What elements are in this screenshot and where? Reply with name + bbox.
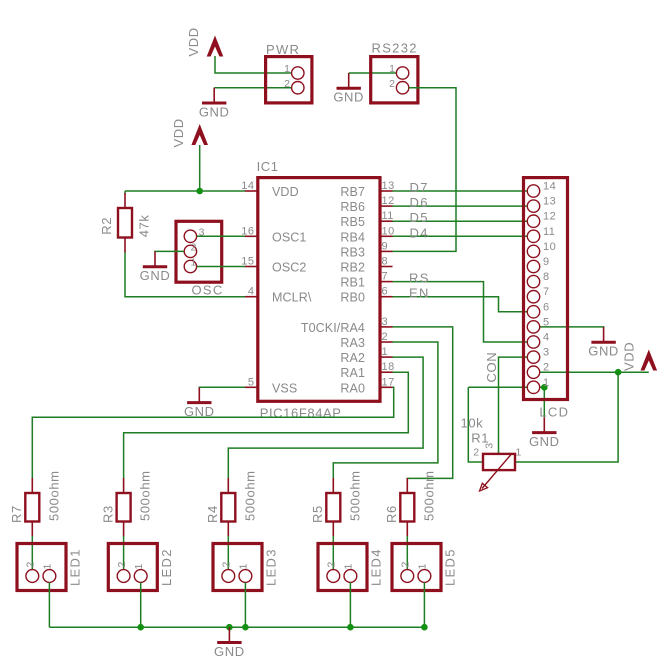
ground GND (left of OSC): [140, 251, 171, 283]
svg-text:12: 12: [543, 211, 556, 223]
power symbol VDD (above IC): [171, 118, 208, 147]
wire LCD pin 1 to GND: [543, 387, 545, 417]
svg-text:9: 9: [382, 240, 389, 252]
connector LCD: [524, 178, 570, 420]
svg-text:1: 1: [382, 346, 389, 358]
svg-text:RB5: RB5: [340, 215, 365, 229]
svg-text:R2: R2: [99, 217, 114, 235]
wire RA3 to R5: [333, 342, 438, 479]
svg-text:3: 3: [382, 316, 389, 328]
resistor R3 500ohm: [100, 470, 152, 536]
wire D4 RB to LCD: [393, 235, 528, 237]
power symbol VDD (right): [622, 342, 658, 371]
wire LED1 pin 1 to rail: [48, 582, 50, 627]
svg-text:1: 1: [133, 564, 145, 570]
pin 15 OSC2 (left): [241, 256, 306, 275]
R2 lead top: [124, 193, 126, 208]
svg-text:PIC16F84AP: PIC16F84AP: [260, 406, 342, 421]
wire R5 to LED4 pin 2: [332, 536, 334, 570]
svg-text:500ohm: 500ohm: [138, 470, 153, 521]
svg-text:2: 2: [25, 562, 37, 568]
pin 18 RA1 (right): [340, 361, 394, 380]
wire LCD pin 1 net: [468, 386, 544, 388]
svg-text:GND: GND: [529, 434, 560, 449]
svg-text:2: 2: [382, 331, 389, 343]
svg-text:GND: GND: [140, 268, 171, 283]
svg-text:D5: D5: [410, 210, 429, 225]
power symbol VDD (top left): [186, 27, 224, 56]
svg-text:1: 1: [389, 63, 395, 75]
svg-text:RB3: RB3: [340, 245, 365, 259]
svg-text:RA3: RA3: [340, 336, 365, 350]
svg-text:8: 8: [543, 271, 550, 283]
ground GND (below LCD): [529, 417, 560, 449]
svg-text:14: 14: [241, 180, 254, 192]
svg-text:2: 2: [191, 241, 197, 253]
wire R3 to LED2 pin 2: [123, 536, 125, 570]
svg-text:D7: D7: [410, 180, 429, 195]
svg-text:RB4: RB4: [340, 230, 365, 244]
wire LCD pin 3 to R1 pin 3: [499, 357, 528, 454]
wire LED2 pin 1 to rail: [140, 582, 142, 627]
trimmer R1 10k: [461, 416, 522, 492]
resistor R4 500ohm: [205, 470, 257, 536]
pin 2 RA3 (right): [340, 331, 392, 350]
junction VDD net: [615, 369, 622, 376]
svg-text:OSC2: OSC2: [272, 261, 306, 275]
IC U1 PIC16F84AP body: [257, 159, 380, 421]
pin 14 VDD (left): [241, 180, 298, 199]
svg-text:RB1: RB1: [340, 276, 365, 290]
pin 17 RA0 (right): [340, 376, 394, 395]
LED LED4: [318, 544, 384, 591]
svg-text:10: 10: [543, 241, 556, 253]
svg-text:RB6: RB6: [340, 200, 365, 214]
svg-text:2: 2: [116, 562, 128, 568]
svg-text:RB0: RB0: [340, 291, 365, 305]
wire LED3 pin 1 to rail: [244, 582, 246, 627]
svg-text:11: 11: [543, 226, 555, 238]
connector RS232: [371, 41, 418, 103]
svg-text:EN: EN: [409, 286, 430, 301]
svg-text:7: 7: [382, 271, 389, 283]
svg-text:8: 8: [382, 256, 389, 268]
svg-text:5: 5: [543, 316, 550, 328]
LED LED2: [108, 544, 174, 591]
svg-text:R4: R4: [205, 505, 220, 523]
wire R2 to IC MCLR: [125, 253, 245, 297]
resistor R6 500ohm: [384, 470, 436, 536]
svg-text:LED4: LED4: [369, 548, 384, 586]
svg-text:500ohm: 500ohm: [242, 470, 257, 521]
svg-text:1: 1: [417, 564, 429, 570]
wire R7 to LED1 pin 2: [31, 536, 33, 570]
ground GND (bottom rail): [214, 627, 245, 659]
LED LED5: [392, 544, 458, 591]
pin 13 RB7 (right): [340, 180, 394, 199]
svg-text:13: 13: [382, 180, 395, 192]
svg-text:3: 3: [484, 443, 496, 449]
wire RS RB1 to LCD pin 4: [393, 282, 528, 342]
wire RA4 to R6: [393, 327, 453, 479]
svg-text:R5: R5: [310, 505, 325, 523]
wire LCD pin 5 to GND: [540, 326, 604, 329]
svg-text:VDD: VDD: [622, 342, 637, 371]
wire EN RB0 to LCD pin 6: [393, 297, 528, 312]
junction rail LED3: [242, 624, 249, 631]
svg-text:47k: 47k: [136, 215, 151, 238]
svg-text:D6: D6: [410, 195, 429, 210]
svg-text:RB2: RB2: [340, 261, 365, 275]
wire RA2 to R4: [228, 357, 423, 478]
junction rail LED2: [137, 624, 144, 631]
svg-text:LED1: LED1: [68, 548, 83, 586]
wire RS232 pin 2 to IC RB3: [393, 88, 457, 252]
svg-text:3: 3: [543, 347, 550, 359]
svg-text:LED2: LED2: [159, 548, 174, 586]
wire R4 to LED3 pin 2: [227, 536, 229, 570]
svg-text:4: 4: [543, 332, 550, 344]
resistor R5 500ohm: [310, 470, 362, 536]
svg-text:GND: GND: [199, 104, 230, 119]
svg-text:PWR: PWR: [266, 42, 300, 57]
svg-text:2: 2: [400, 562, 412, 568]
wire PWR pin 2 to GND: [214, 87, 291, 89]
svg-text:GND: GND: [214, 644, 245, 659]
svg-text:OSC1: OSC1: [272, 230, 306, 244]
svg-text:LED3: LED3: [264, 548, 279, 586]
pin 5 VSS (left): [245, 376, 297, 395]
pin 8 RB2 (right): [340, 256, 392, 275]
pin 9 RB3 (right): [340, 240, 392, 259]
wire VDD to R1 pin 1: [515, 372, 618, 462]
ground GND (left of RS232): [333, 73, 364, 105]
svg-text:RA0: RA0: [340, 381, 365, 395]
svg-text:5: 5: [248, 376, 255, 388]
wire R6 to LED5 pin 2: [406, 536, 408, 570]
svg-text:T0CKI/RA4: T0CKI/RA4: [301, 321, 365, 335]
wire VSS to GND: [199, 386, 245, 389]
junction LCD pin 1: [541, 384, 548, 391]
wire VDD rail to R2: [124, 191, 126, 194]
pin 1 RA2 (right): [340, 346, 392, 365]
svg-text:RS232: RS232: [372, 41, 418, 56]
wire ground rail: [49, 626, 424, 628]
wire OSC pin 2 to GND: [155, 250, 184, 253]
svg-text:6: 6: [543, 301, 550, 313]
svg-text:RB7: RB7: [340, 185, 365, 199]
svg-text:16: 16: [241, 225, 254, 237]
svg-text:RA1: RA1: [340, 366, 365, 380]
svg-text:RA2: RA2: [340, 351, 365, 365]
oscillator OSC: [176, 221, 224, 297]
svg-text:OSC: OSC: [192, 283, 224, 298]
pin 16 OSC1 (left): [241, 225, 306, 244]
svg-text:500ohm: 500ohm: [421, 470, 436, 521]
svg-text:11: 11: [382, 210, 394, 222]
svg-text:2: 2: [284, 78, 290, 90]
svg-text:1: 1: [543, 377, 550, 389]
connector PWR: [266, 42, 312, 103]
svg-text:VSS: VSS: [272, 381, 297, 395]
svg-text:LCD: LCD: [539, 405, 569, 420]
svg-text:2: 2: [326, 562, 338, 568]
resistor R2: [99, 208, 151, 238]
svg-text:IC1: IC1: [257, 159, 279, 174]
svg-text:LED5: LED5: [443, 548, 458, 586]
svg-text:D4: D4: [410, 225, 429, 240]
wire VDD stem: [199, 145, 201, 191]
svg-text:17: 17: [382, 376, 395, 388]
LED LED3: [213, 544, 279, 591]
svg-text:VDD: VDD: [186, 27, 201, 56]
svg-text:4: 4: [248, 286, 255, 298]
junction VDD rail: [196, 188, 203, 195]
pin 10 RB4 (right): [340, 225, 394, 244]
svg-text:18: 18: [382, 361, 395, 373]
svg-text:2: 2: [389, 78, 395, 90]
svg-text:1: 1: [516, 447, 522, 459]
svg-text:10k: 10k: [461, 416, 484, 431]
svg-text:7: 7: [543, 286, 550, 298]
wire LCD pin 1 to R1 pin 2: [468, 387, 483, 462]
svg-text:2: 2: [543, 362, 550, 374]
svg-text:1: 1: [238, 564, 250, 570]
svg-text:500ohm: 500ohm: [347, 470, 362, 521]
wire LED5 pin 1 to rail: [423, 582, 425, 627]
wire VDD to PWR pin 1: [215, 56, 292, 73]
svg-text:GND: GND: [588, 344, 619, 359]
LED LED1: [17, 544, 83, 591]
wire D6 RB to LCD: [393, 205, 528, 207]
wire RS232 pin 1 to GND: [349, 72, 397, 74]
svg-text:VDD: VDD: [171, 118, 186, 147]
ground GND (below IC): [184, 387, 215, 419]
pin 4 MCLR\ (left): [245, 286, 312, 305]
svg-text:MCLR\: MCLR\: [272, 291, 312, 305]
junction rail LED4: [347, 624, 354, 631]
svg-text:VDD: VDD: [272, 185, 299, 199]
svg-text:R7: R7: [9, 505, 24, 523]
svg-text:2: 2: [473, 447, 479, 459]
svg-text:15: 15: [241, 256, 254, 268]
junction rail GND tap: [226, 624, 233, 631]
svg-text:6: 6: [382, 286, 389, 298]
svg-text:2: 2: [221, 562, 233, 568]
wire RA0 to R7: [32, 387, 393, 478]
ground GND (below PWR): [199, 88, 230, 120]
svg-text:CON: CON: [484, 352, 499, 383]
R2 lead bottom: [124, 238, 126, 253]
resistor R7 500ohm: [9, 470, 61, 536]
wire LCD pin 2 to VDD: [540, 371, 649, 373]
svg-text:14: 14: [543, 181, 556, 193]
svg-text:RS: RS: [409, 271, 430, 286]
svg-text:R6: R6: [384, 505, 399, 523]
wire OSC pin 1 to IC OSC2: [197, 266, 245, 268]
wire OSC pin 3 to IC OSC1: [197, 235, 245, 237]
svg-text:1: 1: [343, 564, 355, 570]
wire VDD rail to IC pin 14: [125, 190, 245, 192]
svg-text:1: 1: [284, 63, 290, 75]
pin 12 RB6 (right): [340, 195, 394, 214]
wire LED4 pin 1 to rail: [349, 582, 351, 627]
wire D7 RB to LCD: [393, 190, 528, 192]
pin 6 RB0 (right): [340, 286, 392, 305]
pin 3 T0CKI/RA4 (right): [301, 316, 393, 335]
svg-text:GND: GND: [333, 90, 364, 105]
ground GND (right of LCD): [588, 327, 619, 359]
svg-text:R3: R3: [100, 505, 115, 523]
svg-text:500ohm: 500ohm: [46, 470, 61, 521]
svg-text:1: 1: [191, 256, 197, 268]
wire D5 RB to LCD: [393, 220, 528, 222]
junction rail LED5: [421, 624, 428, 631]
svg-text:12: 12: [382, 195, 395, 207]
wire RA1 to R3: [124, 372, 409, 478]
svg-text:1: 1: [42, 564, 54, 570]
svg-text:9: 9: [543, 256, 550, 268]
pin 7 RB1 (right): [340, 271, 392, 290]
svg-text:13: 13: [543, 196, 556, 208]
svg-text:10: 10: [382, 225, 395, 237]
pin 11 RB5 (right): [340, 210, 394, 229]
